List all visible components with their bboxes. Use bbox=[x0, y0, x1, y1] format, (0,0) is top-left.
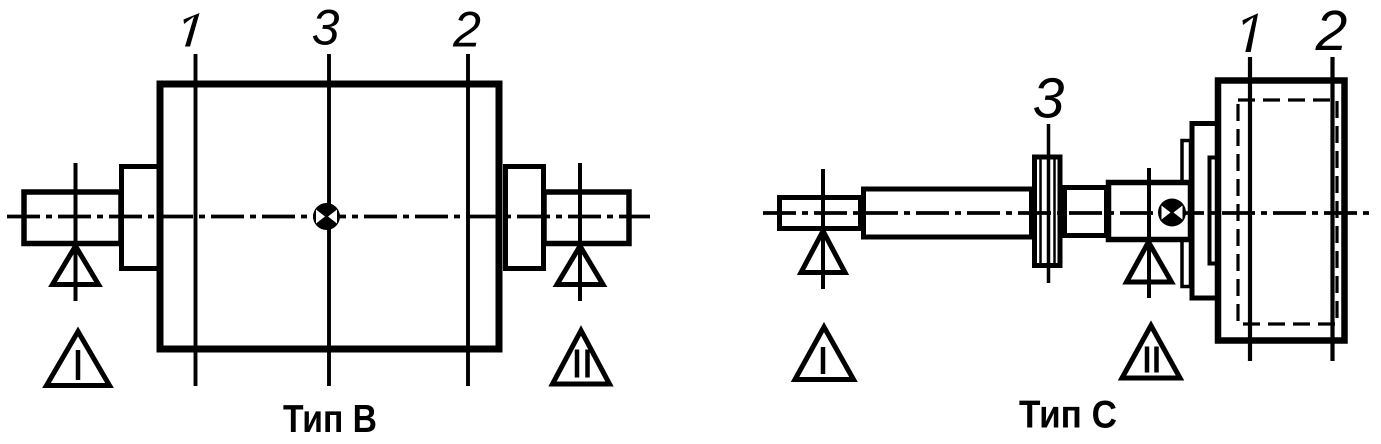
hidden contour dashed rect bbox=[1238, 100, 1337, 324]
correction plane line 1 bbox=[194, 54, 198, 386]
centre axis line B bbox=[7, 215, 650, 219]
shaft collar at flange bbox=[1182, 141, 1191, 287]
plane line 1 (right) bbox=[1248, 57, 1252, 361]
balancing disc 3 bbox=[1035, 157, 1061, 266]
right support triangle bbox=[557, 246, 603, 285]
left support triangle bbox=[53, 246, 99, 285]
hub between flange and rotor bbox=[1210, 158, 1221, 264]
support triangle I (C) bbox=[801, 231, 845, 273]
left support line bbox=[74, 163, 78, 301]
centre of mass symbol C bbox=[1158, 199, 1186, 227]
correction plane line 3 bbox=[327, 54, 331, 386]
support line II (C) bbox=[1147, 168, 1151, 298]
svg-text:3: 3 bbox=[312, 0, 340, 56]
svg-text:Тип B: Тип B bbox=[283, 398, 377, 441]
svg-text:2: 2 bbox=[452, 2, 481, 58]
disc plane line 3 bbox=[1047, 124, 1051, 283]
plane label 1 (right) bbox=[1243, 13, 1259, 52]
right journal shaft bbox=[544, 192, 629, 244]
rotor body B bbox=[160, 84, 499, 349]
middle shaft section bbox=[864, 189, 1032, 237]
bearing I symbol (right diagram) bbox=[795, 327, 854, 380]
svg-text:3: 3 bbox=[1033, 67, 1065, 131]
centre of mass symbol B bbox=[313, 203, 340, 230]
centre axis line C bbox=[763, 211, 1372, 215]
bearing I symbol (left diagram) bbox=[47, 332, 110, 386]
overhung rotor body C bbox=[1218, 81, 1345, 341]
plane label 1 (left) bbox=[184, 13, 200, 47]
plane line 2 (right) bbox=[1330, 57, 1334, 361]
right step block bbox=[506, 167, 544, 269]
svg-text:2: 2 bbox=[1315, 0, 1348, 63]
journal shaft C bbox=[780, 198, 861, 229]
svg-text:Тип C: Тип C bbox=[1019, 394, 1117, 437]
disc inner rim lines bbox=[1039, 160, 1042, 264]
shaft section after disc bbox=[1065, 188, 1107, 236]
flange plate bbox=[1192, 124, 1220, 299]
bearing II symbol (right diagram) bbox=[1122, 326, 1180, 379]
left step block bbox=[122, 167, 160, 269]
left journal shaft bbox=[24, 192, 121, 244]
thick shaft section bbox=[1109, 183, 1191, 240]
support triangle II (C) bbox=[1127, 242, 1172, 282]
support line I (C) bbox=[821, 169, 825, 289]
right support line bbox=[578, 163, 582, 301]
correction plane line 2 bbox=[466, 54, 470, 386]
bearing II symbol (left diagram) bbox=[553, 331, 610, 385]
